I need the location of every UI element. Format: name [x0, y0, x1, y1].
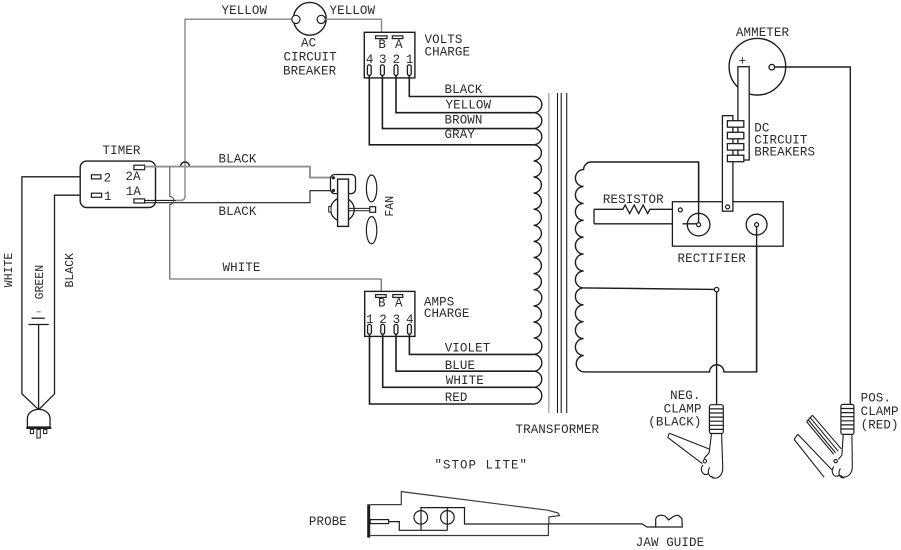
label NEG. CLAMP (BLACK)	[648, 389, 701, 429]
svg-text:YELLOW: YELLOW	[222, 4, 268, 18]
svg-text:GRAY: GRAY	[445, 128, 476, 142]
svg-text:CIRCUIT: CIRCUIT	[284, 51, 338, 65]
wire white AC lead (terminal 2 to plug)	[22, 177, 92, 410]
NEG clamp body	[668, 433, 723, 478]
timer terminal 2	[91, 175, 101, 179]
svg-text:B: B	[378, 296, 386, 310]
wire yellow (breaker to VOLTS B)	[325, 19, 381, 35]
svg-text:CHARGE: CHARGE	[425, 46, 471, 60]
rectifier right diode D2	[746, 214, 767, 235]
switch AMPS CHARGE S2	[365, 291, 415, 336]
svg-text:1A: 1A	[126, 185, 142, 199]
POS clamp body	[794, 415, 852, 478]
DC circuit breakers CB2	[727, 121, 743, 162]
label AMPS CHARGE	[424, 296, 470, 321]
timer terminal 1A	[134, 199, 145, 203]
label POS. CLAMP (RED)	[861, 392, 899, 433]
wire amps pin1 red to transformer	[370, 334, 534, 404]
probe body outline	[370, 492, 559, 536]
busbar ammeter strip	[738, 67, 749, 160]
volts switch pins	[367, 65, 411, 76]
ammeter terminal	[769, 64, 775, 70]
svg-text:FAN: FAN	[384, 196, 397, 217]
ammeter M2	[729, 38, 786, 95]
svg-text:YELLOW: YELLOW	[446, 99, 492, 113]
wire secondary center tap to junction	[584, 288, 715, 290]
svg-text:TRANSFORMER: TRANSFORMER	[516, 423, 600, 437]
wire timer 1A to fan (black)	[145, 191, 332, 203]
wire volts pin4 gray to transformer	[369, 75, 533, 144]
wire volts pin3 brown to transformer	[382, 75, 533, 128]
svg-text:GREEN: GREEN	[34, 265, 47, 300]
fan terminal bracket	[331, 175, 356, 194]
AC circuit breaker CB1	[292, 2, 326, 35]
svg-text:BLUE: BLUE	[445, 359, 475, 373]
jaw guide	[656, 515, 683, 527]
svg-text:BROWN: BROWN	[445, 113, 483, 127]
svg-text:1: 1	[104, 190, 112, 204]
fan blade lower	[366, 217, 376, 244]
svg-text:POS.: POS.	[861, 392, 891, 406]
svg-text:2A: 2A	[125, 170, 141, 184]
svg-text:(BLACK): (BLACK)	[648, 415, 701, 429]
label AC CIRCUIT BREAKER	[283, 37, 337, 79]
wire green ground lead	[38, 325, 40, 410]
svg-text:"STOP LITE": "STOP LITE"	[435, 459, 529, 473]
rectifier assembly box	[672, 202, 783, 247]
wire hop (2A wire over yellow feed)	[180, 162, 189, 167]
svg-text:WHITE: WHITE	[3, 253, 16, 288]
fan shaft	[349, 208, 370, 210]
svg-text:A: A	[395, 296, 403, 310]
fan terminal dots	[332, 176, 335, 192]
svg-text:AMMETER: AMMETER	[736, 26, 790, 40]
wire secondary bottom tap to rectifier right diode (with hop)	[585, 225, 756, 372]
wire timer 1A junction	[145, 199, 176, 201]
svg-text:BLACK: BLACK	[219, 152, 257, 166]
wire secondary top tap vertical into left diode	[698, 162, 700, 225]
svg-text:BLACK: BLACK	[445, 83, 483, 97]
busbar terminal	[726, 205, 730, 209]
rectifier terminal (from resistor)	[678, 208, 682, 212]
wire black AC lead (terminal 1 to plug)	[39, 195, 92, 410]
svg-text:WHITE: WHITE	[223, 261, 261, 275]
label DC CIRCUIT BREAKERS	[754, 122, 815, 160]
label VOLTS CHARGE	[425, 33, 471, 60]
svg-text:B: B	[378, 38, 386, 52]
svg-text:CLAMP: CLAMP	[664, 402, 702, 416]
wire volts pin2 yellow to transformer	[396, 75, 534, 112]
svg-text:A: A	[395, 38, 403, 52]
AC plug P1	[26, 409, 51, 438]
transformer core	[549, 93, 567, 413]
node junction (neg lead tap)	[714, 287, 718, 291]
POS clamp sleeve	[841, 404, 854, 434]
svg-text:BREAKERS: BREAKERS	[754, 146, 815, 160]
svg-text:PROBE: PROBE	[309, 515, 347, 529]
svg-text:VIOLET: VIOLET	[445, 342, 491, 356]
svg-text:TIMER: TIMER	[103, 144, 141, 158]
svg-text:CHARGE: CHARGE	[424, 307, 470, 321]
svg-text:JAW GUIDE: JAW GUIDE	[636, 536, 704, 550]
fan motor body	[338, 179, 349, 226]
busbar breaker strip	[722, 116, 733, 212]
timer T1	[80, 161, 155, 207]
transformer T2 primary winding	[534, 97, 542, 405]
wire junction to NEG clamp	[716, 292, 718, 405]
switch VOLTS CHARGE S1	[364, 32, 415, 78]
wire amps pin4 violet to transformer	[409, 334, 533, 354]
wire white feed (2A to AMPS CHARGE B) with hop over 1A wires	[170, 167, 381, 295]
svg-text:2: 2	[104, 171, 112, 185]
svg-text:AC: AC	[301, 37, 316, 51]
fan motor left tab	[329, 207, 331, 212]
amps switch pins	[368, 324, 412, 334]
wire ammeter to POS clamp	[775, 67, 851, 404]
svg-text:CLAMP: CLAMP	[861, 405, 899, 419]
fan blade upper	[366, 175, 376, 202]
wire probe to jaw guide	[549, 524, 656, 527]
NEG clamp sleeve	[709, 405, 723, 434]
svg-text:YELLOW: YELLOW	[330, 4, 376, 18]
svg-text:BREAKER: BREAKER	[283, 65, 337, 79]
svg-text:BLACK: BLACK	[64, 253, 77, 288]
svg-text:RESISTOR: RESISTOR	[603, 193, 664, 207]
svg-text:RECTIFIER: RECTIFIER	[678, 252, 747, 266]
transformer T2 secondary winding (top tap to rectifier left diode)	[575, 162, 698, 372]
resistor R1	[594, 205, 699, 224]
wire bottom tap into right diode center	[756, 225, 758, 372]
timer terminal 2A	[134, 165, 145, 170]
ground symbol (green wire chassis ground)	[28, 312, 48, 325]
svg-text:RED: RED	[445, 391, 468, 405]
rectifier left diode D1	[687, 213, 710, 236]
fan M1 motor circle	[331, 198, 355, 222]
wire timer 2A to fan (black)	[145, 167, 332, 178]
wire volts pin1 black to transformer	[409, 75, 533, 96]
diode center dots	[697, 223, 701, 227]
wire amps pin3 blue to transformer	[396, 334, 534, 371]
svg-text:NEG.: NEG.	[670, 389, 700, 403]
svg-text:BLACK: BLACK	[219, 205, 257, 219]
wire yellow feed (AC breaker to timer 1A)	[176, 19, 292, 200]
wire resistor into left diode center	[683, 223, 699, 225]
svg-text:(RED): (RED)	[861, 418, 899, 432]
wire amps pin2 white to transformer	[383, 334, 534, 387]
probe tip bar	[367, 504, 370, 537]
fan hub	[370, 207, 376, 213]
svg-text:WHITE: WHITE	[446, 374, 484, 388]
timer terminal 1	[91, 193, 101, 197]
